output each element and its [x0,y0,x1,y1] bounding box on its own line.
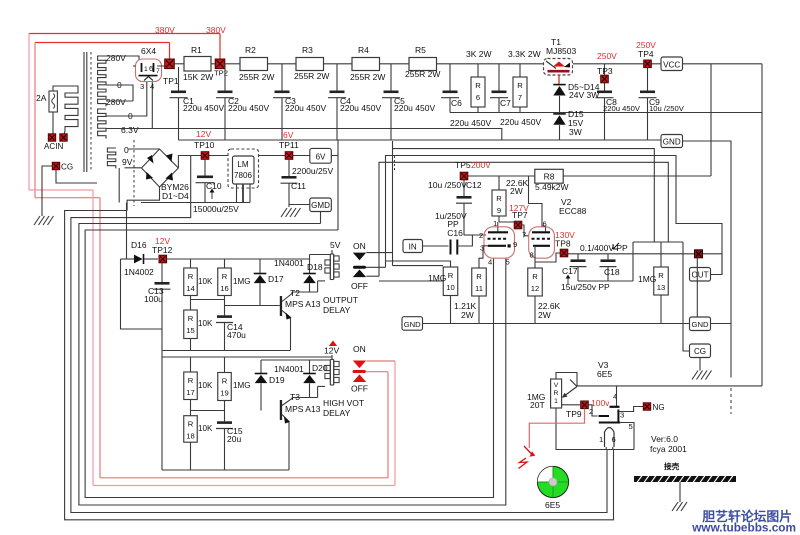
switch2 OFF contact [353,374,366,382]
svg-text:6V: 6V [283,130,294,140]
svg-text:www.tubebbs.com: www.tubebbs.com [691,521,796,535]
svg-text:16: 16 [220,284,229,293]
svg-text:TP12: TP12 [152,245,173,255]
resistor R13 [654,267,669,295]
svg-text:10u /250V: 10u /250V [649,104,685,113]
svg-text:DELAY: DELAY [323,305,351,315]
diode D19 clamp [260,360,262,374]
terminal box 6V [310,148,332,163]
wire R9 top [498,176,500,190]
svg-text:R4: R4 [358,45,369,55]
wire VR1 top loop [556,373,577,386]
wire delay rail left loop [121,259,163,329]
svg-text:TP4: TP4 [638,49,654,59]
test point TP8 [560,249,568,257]
svg-text:0.1/400V PP: 0.1/400V PP [580,243,628,253]
wire TP9 to grid [588,405,597,416]
capacitor C17 [577,254,579,260]
capacitor C12 [463,180,465,196]
diode D20 clamp [309,360,311,374]
resistor R1 [184,57,211,72]
wire R3 to R4 [324,63,353,65]
svg-text:255R 2W: 255R 2W [239,72,274,82]
svg-text:MJ8503: MJ8503 [546,46,577,56]
svg-text:6E5: 6E5 [545,500,560,510]
resistor R17 [184,372,198,400]
wire bridge minus return [127,187,159,211]
wire R19 bottom to base node [224,401,226,422]
terminal box VCC [661,57,683,71]
net 6.3V heater run [152,129,502,141]
wire switch2 top link red [366,360,395,362]
switch1 common bar [353,266,366,269]
svg-text:100v: 100v [591,398,610,408]
potentiometer VR1 [551,379,562,408]
wire TP9 indicator red [529,409,584,448]
wire HV center tap 0 [106,85,133,101]
svg-text:6X4: 6X4 [141,46,156,56]
wire 12V feed drop [126,203,128,260]
svg-text:R: R [222,272,228,281]
net 200V node line [464,175,535,177]
svg-text:Ver:6.0: Ver:6.0 [651,434,678,444]
svg-text:9: 9 [497,206,501,215]
wire 280V bottom tap [106,100,133,102]
svg-text:R: R [448,271,454,280]
svg-text:R: R [188,420,194,429]
svg-text:R: R [532,272,538,281]
net T2 emitter line [162,350,291,352]
chassis ground symbol left [34,216,40,225]
wire switch2 bar link red [366,371,388,373]
svg-text:220u 450V: 220u 450V [500,117,541,127]
tube V2a cathode [488,245,506,247]
svg-text:R: R [476,272,482,281]
bridge rectifier BYM26 D1-D4 [142,149,179,187]
svg-text:R: R [188,272,194,281]
svg-text:20T: 20T [530,400,545,410]
svg-text:C12: C12 [466,180,482,190]
svg-text:12V: 12V [324,346,339,356]
wire bus R5 to T1 [437,63,545,65]
wire bundle line 4 heater ground [85,230,493,498]
svg-text:127V: 127V [509,203,529,213]
net 12V line 2 [162,356,332,358]
wire TP7 to grid pin7 [499,220,518,223]
test point TP4 [644,60,652,68]
wire cap bottoms to R13 node [578,280,633,282]
resistor R4 [352,58,380,71]
wire HV loop left vertical A (pink) [28,34,30,191]
wire relay1 5V stub [331,250,333,254]
test point TP3 [604,64,606,75]
wire V2b cathode pin8 out [534,246,536,268]
net R13 top line [633,241,683,243]
wire HV loop horizontal B [35,197,100,199]
wire HV loop left vertical B (red) [34,43,36,198]
12V arrow marker [329,341,337,347]
svg-text:R: R [658,271,664,280]
tube V1 6X4 envelope [136,59,162,82]
wire switch1 top to rail A drop [366,252,392,254]
svg-text:R: R [188,314,194,323]
capacitor C2 [224,64,226,91]
tube V3 filament [605,428,615,448]
terminal ACIN square 2 [60,134,67,141]
wire CG to chassis [42,166,52,216]
capacitor C18 [607,254,609,260]
svg-text:7: 7 [518,93,522,102]
resistor R16 [218,268,232,296]
svg-text:2200u/25V: 2200u/25V [292,166,333,176]
svg-text:接壳: 接壳 [664,461,680,471]
svg-text:fcya 2001: fcya 2001 [650,444,687,454]
capacitor C17 arrow [567,277,569,284]
svg-text:D16: D16 [131,240,147,250]
net rail C cg shield [379,162,668,276]
svg-text:MPS A13: MPS A13 [285,299,321,309]
svg-text:100u: 100u [144,294,163,304]
capacitor C8 [597,91,612,94]
svg-text:R2: R2 [245,45,256,55]
svg-text:17: 17 [186,388,195,397]
ground symbol under C11 [281,208,287,217]
transformer core line 2 [86,52,88,172]
dashed link NG to gnd net [730,388,732,414]
wire 12V delay rail left [121,258,135,260]
svg-text:15K 2W: 15K 2W [183,72,213,82]
svg-text:C7: C7 [500,98,511,108]
svg-text:TP10: TP10 [194,140,215,150]
wire HV loop bottom A (pink) [93,485,395,487]
capacitor C9 [647,68,649,91]
svg-text:TP1: TP1 [163,76,179,86]
terminal box IN [403,240,423,253]
switch1 OFF contact [353,270,366,278]
svg-text:10K: 10K [198,277,213,286]
wire CG lower loop [56,170,97,183]
svg-text:C18: C18 [604,267,620,277]
capacitor C14 [217,315,232,318]
svg-text:220u 450V: 220u 450V [450,118,491,128]
wire VCC to right rail [683,63,763,65]
dashed marker x394 [394,156,396,170]
net 380V top line A [29,33,220,35]
svg-text:ACIN: ACIN [44,142,63,151]
svg-text:10u /250V: 10u /250V [428,180,467,190]
svg-text:D19: D19 [269,375,285,385]
svg-text:0: 0 [124,145,129,155]
svg-text:14: 14 [186,284,195,293]
net ground rail under C10 [141,202,250,204]
wire 6X4 left to winding [133,65,136,67]
svg-text:C10: C10 [206,181,222,191]
svg-text:5: 5 [506,258,510,267]
transformer secondary 9V winding [107,148,115,168]
test point TP12 [159,255,167,263]
svg-text:12V: 12V [196,129,211,139]
wire T2 collector to relay1 [292,291,318,293]
svg-text:1N4001: 1N4001 [274,258,304,268]
wire R15 bottom [190,339,192,351]
wire R1 to TP2 [211,63,215,65]
wire 6X4 cathode to TP1 [157,64,165,66]
svg-text:220u 450V: 220u 450V [285,103,326,113]
test point TP9 [581,401,589,409]
wire R8 to VCC drop [563,175,711,177]
capacitor C10 [204,159,206,175]
terminal box CG output [690,344,711,358]
svg-text:DELAY: DELAY [323,408,351,418]
svg-text:3: 3 [140,82,144,91]
wire VR1 bottom loop [556,408,634,450]
svg-text:R8: R8 [544,172,555,182]
wire relay2 12V stub [331,355,333,360]
tube V2a grid [488,238,509,240]
wire 280V top tap to 6X4 plate [106,56,139,60]
wire T1 emitter to TP3 bus [573,63,600,65]
chassis plate ground symbol [672,502,678,511]
svg-text:12: 12 [531,284,540,293]
wire R16 top [224,259,226,268]
svg-text:3K 2W: 3K 2W [466,49,492,59]
svg-text:D20: D20 [312,363,328,373]
transformer secondary 280V-0-280V winding [98,56,106,106]
wire GND box to right [683,141,732,378]
relay connector K1 [329,254,331,280]
wire bundle line 1 bridge return [65,211,614,520]
svg-text:NG: NG [653,403,665,412]
wire HV loop rise to switch2 A (pink) [394,361,396,486]
tube V2b plate [532,231,550,233]
wire 380V drop to TP1 [169,43,171,61]
svg-text:1: 1 [144,66,148,73]
svg-text:IN: IN [409,242,417,251]
svg-text:R5: R5 [415,45,426,55]
resistor R9 [492,190,506,216]
svg-text:15000u/25V: 15000u/25V [193,204,239,214]
svg-text:GND: GND [663,137,681,146]
switch2 common bar [353,370,366,373]
svg-text:255R 2W: 255R 2W [294,71,329,81]
tube V2a triode envelope [484,227,515,258]
switch2 ON contact [353,361,366,369]
terminal box GND output [690,317,711,331]
svg-text:OUT: OUT [691,271,708,280]
net HV return rail [450,112,762,114]
svg-text:7806: 7806 [234,171,252,180]
svg-text:280V: 280V [106,97,126,107]
svg-text:255R 2W: 255R 2W [350,72,385,82]
svg-text:OFF: OFF [351,384,368,394]
fuse F1 2A [49,91,57,112]
svg-text:470u: 470u [227,330,246,340]
wire R2 to R3 [268,63,297,65]
wire D16 to TP12 [144,258,159,260]
svg-text:3.3K 2W: 3.3K 2W [508,49,541,59]
svg-text:5.49k2W: 5.49k2W [535,182,569,192]
svg-text:3: 3 [480,244,484,253]
resistor R8 [535,169,563,183]
net audio ground rail [423,323,690,325]
wire 6.3V tap to 6X4 heater pin4 [106,81,152,129]
svg-text:220u 450V: 220u 450V [603,104,641,113]
wire R19 top [224,357,226,373]
wire R13 top [660,242,662,267]
svg-text:D1~D4: D1~D4 [162,191,189,201]
svg-text:TP11: TP11 [279,140,299,150]
chassis plate bar [634,476,736,482]
svg-text:6E5: 6E5 [597,369,612,379]
svg-text:200V: 200V [471,160,491,170]
capacitor C13 [161,262,163,282]
capacitor C16 coupling [450,240,452,255]
svg-text:250V: 250V [597,51,617,61]
wire T1 base red drop [558,75,560,85]
tube V3 target pin3 [617,410,619,422]
svg-text:1N4002: 1N4002 [124,267,154,277]
svg-text:6.3V: 6.3V [121,125,139,135]
svg-text:C11: C11 [291,181,306,191]
wire R8 left to plate pin6 [529,176,546,231]
svg-text:C17: C17 [562,266,578,276]
svg-text:6: 6 [612,435,616,444]
test point TP7 [514,221,522,229]
svg-text:10K: 10K [198,319,213,328]
switch1 ON contact [353,253,366,261]
wire chassis plate to ground [679,482,681,502]
wire R9 to plate pin1 [498,216,500,222]
wire 9V tap to bridge AC1 [125,167,142,169]
chassis ground symbol right [692,371,698,380]
wire switch1 bar link [366,266,386,268]
svg-text:R: R [475,81,481,90]
wire relay1 bottom-left [318,280,326,282]
wire rail B tap to R10 [386,261,451,267]
wire TP8 to coupling node [568,253,694,255]
svg-text:R: R [188,376,194,385]
svg-text:ON: ON [353,241,366,251]
wire R17 top [190,357,192,372]
transistor T3 MPS A13 [280,400,282,420]
terminal box GMD [310,198,332,212]
svg-text:10: 10 [446,283,455,292]
svg-text:C16: C16 [447,228,463,238]
wire bundle line 3 GMD net [79,224,506,506]
wire winding drop [118,168,120,203]
svg-text:OUTPUT: OUTPUT [323,295,358,305]
svg-text:GMD: GMD [311,201,330,210]
wire GND output right link [711,323,732,325]
wire VR1 to TP9 [562,404,581,406]
svg-text:R: R [517,81,523,90]
capacitor C7 [498,64,500,91]
svg-text:280V: 280V [106,53,126,63]
zener D5-D14 [553,84,565,86]
indicator arrow red [524,446,533,455]
svg-text:CG: CG [694,347,706,356]
wire bridge plus up to 12V bus [178,156,190,169]
svg-text:220u 450V: 220u 450V [228,103,269,113]
svg-text:2A: 2A [36,93,47,103]
net 12V raw bus [190,155,228,157]
wire R16 bottom to base node [224,296,226,316]
diode D17 clamp [259,259,261,274]
svg-text:V: V [554,382,559,389]
svg-text:1MG: 1MG [233,381,250,390]
capacitor C5 [390,64,392,91]
svg-text:5: 5 [629,422,633,431]
transistor T2 MPS A13 [280,296,282,316]
test point TP5 [460,172,468,180]
wire V2a cathode pin3 to R11 [479,246,488,268]
net rail B shield [386,156,723,275]
wire VCC branch down [710,64,712,176]
tube V2b triode envelope [529,227,555,258]
net delay2 emitter return [162,469,289,471]
wire fuse top link [53,86,65,91]
wire fuse bottom to ACIN [52,112,54,134]
wire R13 bottom [660,295,662,324]
svg-text:LM: LM [237,160,248,169]
relay connector K2 [329,360,331,386]
capacitor C1 [178,67,180,91]
wire HV loop rise to switch2 B (red) [387,372,389,478]
svg-text:6: 6 [476,93,480,102]
wire cathode right to bottom loop [620,423,634,450]
svg-text:TP5: TP5 [455,160,471,170]
wire C16 to grid [457,235,486,246]
wire 6V regulated bus [259,155,310,157]
resistor R15 [184,310,198,339]
wire C11 ground link [289,204,310,206]
resistor R18 [184,416,198,443]
wire HV loop horizontal A [29,189,93,191]
svg-text:D18: D18 [307,262,323,272]
svg-text:255R 2W: 255R 2W [405,69,440,79]
wire junction to OUT [703,253,723,255]
svg-text:20u: 20u [227,434,241,444]
test point TP10 [201,152,209,160]
svg-text:10K: 10K [198,381,213,390]
net 380V top line B [35,42,170,44]
svg-text:OFF: OFF [351,281,368,291]
transformer core line 1 [83,52,85,172]
svg-text:220u 450V: 220u 450V [340,103,381,113]
svg-text:TP2: TP2 [214,69,228,78]
wire right outer vertical [761,64,763,386]
tube V3 cathode bar [599,422,620,424]
wire CG2 to chassis [699,358,701,371]
svg-text:1N4001: 1N4001 [274,364,304,374]
terminal box OUT [690,268,711,282]
transformer screen dashed line [133,140,135,206]
tube V2a plate [488,231,508,233]
wire GMD box drop [320,212,322,224]
terminal ACIN square 1 [48,134,55,141]
wire junction to ground box [696,258,698,317]
svg-text:7: 7 [522,231,526,240]
svg-text:8: 8 [530,251,534,260]
wire switch1 off link [366,275,379,277]
svg-text:2W: 2W [461,310,474,320]
transformer primary winding [64,86,78,134]
diode D18 clamp [309,255,311,274]
svg-text:CG: CG [61,163,73,172]
wire rail C lower arm [379,280,443,282]
wire main B+ bus TP2 to R2 [225,63,240,65]
wire R4 to R5 [380,63,410,65]
